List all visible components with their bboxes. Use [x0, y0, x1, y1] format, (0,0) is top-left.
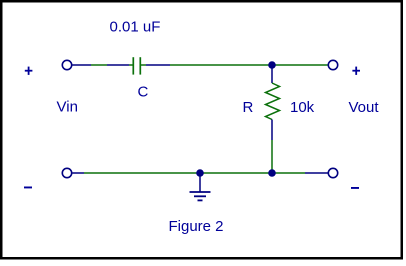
wire resistor to bottom rail	[271, 140, 273, 173]
bottom rail wire	[73, 172, 329, 174]
svg-text:C: C	[138, 84, 149, 101]
plus symbol right	[352, 67, 360, 75]
wire node A to output terminal	[272, 64, 329, 66]
bottom node at resistor junction dot	[268, 169, 276, 177]
node Vin+ terminal (input, top-left open circle)	[62, 60, 71, 69]
capacitor C plates	[133, 57, 140, 74]
wire input terminal to capacitor C	[73, 64, 133, 66]
resistor R top lead	[271, 65, 273, 83]
minus symbol right	[351, 187, 359, 189]
node Vout+ terminal (output, top-right open circle)	[328, 60, 337, 69]
minus symbol left	[24, 187, 32, 189]
ground junction dot	[196, 169, 204, 177]
resistor R zigzag body	[266, 83, 280, 120]
wire capacitor C to node A	[141, 64, 272, 66]
node A junction dot	[268, 61, 276, 69]
svg-text:0.01 uF: 0.01 uF	[110, 19, 161, 36]
node Vin- terminal (bottom-left open circle)	[62, 168, 71, 177]
svg-text:Vout: Vout	[349, 99, 380, 116]
svg-text:10k: 10k	[290, 99, 315, 116]
resistor R bottom lead	[271, 120, 273, 141]
svg-text:Vin: Vin	[57, 99, 78, 116]
node Vout- terminal (bottom-right open circle)	[328, 168, 337, 177]
svg-text:R: R	[243, 99, 254, 116]
ground symbol	[190, 176, 211, 200]
svg-text:Figure 2: Figure 2	[169, 218, 224, 235]
plus symbol left	[25, 67, 33, 75]
